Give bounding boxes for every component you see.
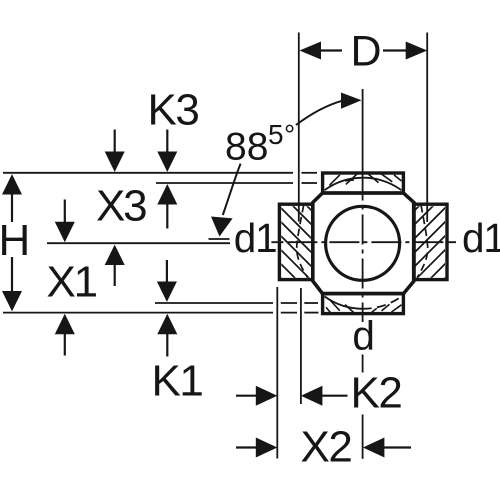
svg-text:X2: X2 [301,423,352,472]
svg-text:H: H [0,216,30,265]
bottom socket hatching [326,300,402,313]
dim K1 lower arrow (up onto line E) [157,314,177,334]
dim X1 upper arrow (down onto line C) [64,200,66,223]
vertical centerline (below d label) [362,355,364,373]
dim X3 upper arrow (down onto line A) [114,130,116,153]
dim X1 lower arrow (up onto line E) [55,314,75,334]
dim D left arrow [300,42,322,60]
svg-text:K1: K1 [152,357,203,406]
bottom extension line right (x=300.9) [300,288,302,404]
bottom socket inner arc (solid left, dashed right) [325,296,363,308]
dim X2 left arrow [236,446,257,448]
svg-text:d1: d1 [234,215,277,261]
svg-text:K3: K3 [148,86,199,135]
horizontal centerline (dash-dot d1 axis) [271,241,456,243]
svg-text:°: ° [284,119,295,150]
fitting bore circle [326,206,400,280]
line B (socket-depth line y=183.7) [156,182,317,184]
svg-text:88: 88 [225,126,268,169]
line D (lower socket-depth line y=302.8) [155,302,318,304]
right socket outline [414,204,447,279]
top socket outline [323,173,404,193]
svg-text:d: d [352,312,375,358]
fitting body octagon [313,193,414,294]
dim K1 upper arrow (down onto line D) [166,260,168,282]
line E (bottom reference line y=311.8) [3,312,319,314]
vertical centerline (top solid) [362,89,364,171]
tick above line C end [209,238,230,240]
line C (d1 axis reference y=243.6) [47,242,230,244]
svg-text:X1: X1 [47,258,97,307]
svg-text:5: 5 [268,119,284,150]
vertical centerline (bottom) [362,415,364,459]
dim D extension line left [298,33,300,222]
dim K2 right arrow [301,386,323,406]
bottom extension line left (x=277.3) [276,287,278,459]
left socket outline [279,204,312,279]
left socket hatching [252,151,382,379]
svg-text:X3: X3 [96,182,146,231]
svg-text:K2: K2 [351,369,402,418]
dim K3 lower arrow (up onto line B) [157,184,177,205]
vertical centerline (dash-dot through body) [362,171,364,323]
angle leader to vertical axis [296,101,342,125]
dim H up arrow [2,174,22,194]
right socket hidden arc (dashed) [417,205,427,278]
dim X3 lower arrow (up onto line C) [105,245,125,265]
top socket hatching [330,173,402,185]
svg-text:D: D [351,28,382,76]
dim X2 right arrow [363,438,385,458]
top socket inner arc [325,178,402,191]
dim K3 upper arrow (down onto line A) [166,130,168,153]
dim K2 left arrow [236,395,257,397]
dim H down arrow [11,257,13,292]
dim D right arrow [383,49,407,51]
left socket hidden arc (dashed) [297,205,308,278]
right socket hatching [344,151,474,379]
line A (top reference line y=172.5) [3,172,317,174]
dim D extension line right [426,33,428,223]
angle leader to d1 axis [223,164,241,215]
bottom socket outline [323,294,404,314]
svg-text:d1: d1 [462,215,500,261]
